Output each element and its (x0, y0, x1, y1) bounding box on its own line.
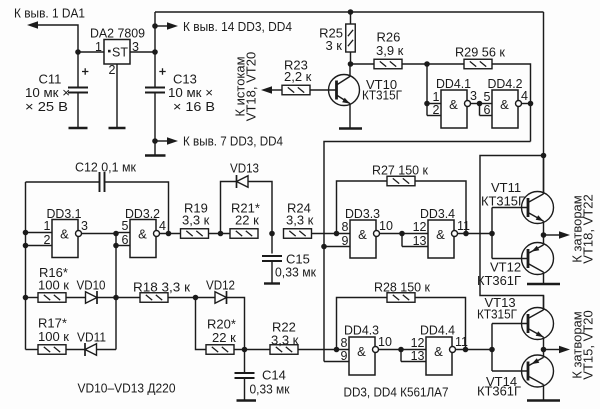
svg-text:К выв. 7 DD3, DD4: К выв. 7 DD3, DD4 (183, 134, 283, 149)
resistor R29 (464, 59, 492, 69)
svg-text:VT18, VT20: VT18, VT20 (244, 52, 259, 121)
gate DD3.4 output inversion bubble (452, 231, 458, 237)
node R27 right / DD3.4 out (463, 231, 469, 237)
node R20/R22/C14/VD12 (242, 347, 248, 353)
svg-text:3: 3 (81, 219, 88, 233)
wire DD3.3 out (380, 233, 403, 235)
svg-text:R18 3,3 к: R18 3,3 к (133, 280, 190, 295)
node DD4.2 input jog (477, 101, 483, 107)
wire VT13 collector (543, 296, 545, 311)
wire VT10 emitter down (349, 104, 351, 128)
wire node to R26 (351, 63, 375, 65)
node DD3.3 pin 9 (321, 244, 327, 250)
wire node A down to DD4.1 inputs (426, 64, 428, 116)
wire R28 right (415, 298, 466, 350)
gate DD3.1 output inversion bubble (76, 231, 82, 237)
svg-text:С12 0,1 мк: С12 0,1 мк (75, 160, 136, 175)
logic gate DD4.1 box (441, 90, 467, 128)
svg-text:DD4.1: DD4.1 (436, 76, 471, 91)
common bar under VT12 (527, 283, 560, 285)
svg-text:КТ315Г: КТ315Г (362, 88, 402, 103)
svg-text:0,33 мк: 0,33 мк (275, 265, 316, 280)
wire C12 left (26, 181, 100, 183)
svg-text:R28 150 к: R28 150 к (374, 280, 430, 295)
wire DD3.2 pin 5 (116, 232, 130, 234)
svg-text:100 к: 100 к (38, 278, 69, 293)
svg-text:3,3 к: 3,3 к (182, 213, 210, 228)
common bar under C11 (69, 127, 88, 129)
wire DD3.1 pin 1 (26, 232, 53, 234)
wire VT12 collector (543, 272, 545, 283)
capacitor C13 plates (145, 88, 165, 93)
left inputs vertical (25, 182, 27, 350)
svg-text:VD11: VD11 (77, 330, 106, 345)
node R28 right / DD4.4 out (463, 347, 469, 353)
node VD10/VD11 join (113, 295, 119, 301)
node C11/DA2 junction (75, 49, 81, 55)
wire C15 top (271, 234, 273, 254)
svg-text:13: 13 (413, 234, 427, 248)
wire R16 left (26, 297, 39, 299)
node emitters VT13 VT14 (541, 347, 547, 353)
svg-text:22 к: 22 к (212, 330, 236, 345)
node DD3.1 pin2 (23, 243, 29, 249)
wire DD4.1 out to jog (471, 103, 480, 105)
node 14-tap (152, 23, 158, 29)
wire DD3.4 pin 12 (402, 233, 428, 235)
logic gate DD3.3 box (350, 220, 376, 258)
svg-text:К выв. 14 DD3, DD4: К выв. 14 DD3, DD4 (183, 19, 292, 34)
svg-text:22 к: 22 к (235, 213, 259, 228)
wire VT14 collector (543, 385, 545, 400)
node R18/VD12/R20 (193, 295, 199, 301)
node R16 left (23, 295, 29, 301)
wire +9V to VT13 collector frame (480, 156, 544, 310)
svg-text:КТ315Г: КТ315Г (481, 194, 525, 209)
svg-text:VT15, VT20: VT15, VT20 (581, 310, 596, 379)
wire to arrow 7 (155, 140, 168, 142)
resistor R26 (374, 59, 402, 69)
gate DD4.4 output inversion bubble (450, 347, 456, 353)
node R25/R26/VT10 collector (348, 61, 354, 67)
svg-text:&: & (500, 97, 509, 112)
common bar under VT14 (527, 399, 560, 401)
wire DD3.3 pin 9 (324, 246, 350, 248)
wire DD4.1 pin 1 (427, 103, 441, 105)
transistor VT14 (PNP) (522, 355, 554, 387)
svg-text:&: & (436, 227, 445, 242)
voltage regulator DA2 box (104, 40, 130, 65)
svg-text:КТ315Г: КТ315Г (477, 307, 517, 322)
capacitor C14 plates (235, 373, 255, 378)
svg-text:1: 1 (433, 90, 440, 104)
svg-text:12: 12 (411, 336, 425, 350)
svg-text:8: 8 (342, 220, 349, 234)
resistor R27 (387, 176, 415, 186)
transistor VT13 (NPN) (522, 308, 554, 340)
wire R29 right down to pin4 node (492, 64, 531, 142)
svg-text:2: 2 (44, 233, 51, 247)
wire R22 to DD4.3 (298, 349, 349, 351)
node 7-tap (152, 138, 158, 144)
logic gate DD3.4 box (428, 220, 454, 258)
wire DD3.1 out (82, 233, 117, 235)
C13 plus mark (159, 68, 165, 74)
svg-text:9: 9 (342, 234, 349, 248)
svg-text:6: 6 (484, 103, 491, 117)
svg-text:10: 10 (379, 219, 393, 233)
diode VD11 (85, 344, 97, 356)
wire DD4.3 out (379, 349, 402, 351)
wire R25 to collector node (350, 52, 352, 64)
svg-text:VD13: VD13 (230, 161, 259, 176)
transistor VT12 (PNP) (522, 243, 554, 275)
common bar under C14 (237, 399, 257, 401)
logic gate DD4.2 box (492, 90, 518, 128)
svg-text:ST: ST (112, 46, 128, 60)
resistor R24 (284, 229, 312, 239)
node R27 left / DD3.3 pin 8 (334, 231, 340, 237)
wire C12 right (105, 182, 169, 234)
jog DD4.2 inputs (479, 104, 481, 116)
svg-text:&: & (357, 344, 366, 359)
svg-text:R27 150 к: R27 150 к (372, 163, 428, 178)
svg-text:DD4.4: DD4.4 (420, 323, 455, 338)
svg-text:1: 1 (44, 219, 51, 233)
common bar under VT10 (339, 127, 362, 129)
node DD4.1 pin1 (424, 101, 430, 107)
wire DA2 pin 2 down (116, 64, 118, 128)
jog DD4.4 inputs (400, 350, 402, 362)
svg-text:&: & (358, 227, 367, 242)
svg-text:VD10–VD13 Д220: VD10–VD13 Д220 (78, 381, 176, 396)
wire DD3.4 out to bases (458, 233, 493, 235)
diode VD10 (86, 292, 98, 304)
C11 plus mark (82, 68, 88, 74)
gate DD3.2 output inversion bubble (154, 231, 160, 237)
svg-text:3: 3 (470, 89, 477, 103)
arrow to pin 1 DA1 (27, 21, 38, 29)
wire R19 to VD13 node (209, 233, 231, 235)
gate DD4.3 output inversion bubble (373, 347, 379, 353)
wire C14 top (244, 350, 246, 374)
svg-text:5: 5 (122, 219, 129, 233)
node DD3.2 pin 6 tap (113, 243, 119, 249)
diode VD13 (237, 176, 249, 188)
logic gate DD4.3 box (349, 337, 375, 375)
svg-text:9: 9 (341, 349, 348, 363)
wire R17 to VD11 (66, 349, 85, 351)
common bar under C15 (264, 282, 280, 284)
node VT11/VT12 bases (489, 231, 495, 237)
wire R28 left (337, 298, 388, 350)
wire to arrow 14 (155, 25, 168, 27)
base frame VT13 VT14 (492, 324, 528, 372)
wire VD10 to node (97, 297, 140, 299)
resistor R21 (230, 229, 258, 239)
svg-text:1: 1 (95, 40, 102, 54)
svg-text:С14: С14 (262, 368, 286, 383)
wire C14 bottom (244, 378, 246, 400)
wire from DA1 arrow to node (38, 25, 78, 52)
capacitor C15 plates (262, 256, 282, 261)
svg-text:&: & (60, 227, 69, 242)
svg-text:5: 5 (484, 90, 491, 104)
wire C11 to common (77, 93, 79, 128)
svg-text:DD3.3: DD3.3 (345, 206, 380, 221)
right +9V drop (543, 12, 545, 194)
wire DD3.2 pin 6 (116, 245, 130, 247)
wire rail to R25 (350, 12, 352, 24)
resistor R19 (181, 229, 209, 239)
arrow to gates VT15 VT20 (559, 346, 570, 354)
wire R24 to DD3.3 (312, 233, 351, 235)
capacitor C12 (100, 172, 105, 192)
svg-text:4: 4 (521, 89, 528, 103)
resistor R28 (387, 293, 415, 303)
node VD13 left (218, 231, 224, 237)
wire C13 down (154, 93, 156, 156)
wire C15 bottom (271, 261, 273, 283)
wire DD4.1 pin 2 (427, 115, 441, 117)
resistor R18 (140, 293, 168, 303)
wire VT14 emitter (543, 350, 545, 358)
svg-text:DD4.3: DD4.3 (344, 323, 379, 338)
svg-text:10 мк ×: 10 мк × (168, 85, 213, 100)
wire R20 to node (234, 349, 270, 351)
svg-text:VT18, VT22: VT18, VT22 (581, 194, 596, 263)
node A (R26/R29/DD4.1 input) (424, 61, 430, 67)
arrow to pin 14 DD3 DD4 (167, 22, 178, 30)
node VT13/VT14 bases (489, 347, 495, 353)
svg-text:11: 11 (455, 335, 468, 349)
svg-text:12: 12 (413, 220, 427, 234)
svg-text:3 к: 3 к (325, 38, 342, 53)
node R28 left / DD4.3 pin 8 (334, 347, 340, 353)
svg-text:2: 2 (433, 103, 440, 117)
svg-text:&: & (138, 227, 147, 242)
logic gate DD4.4 box (426, 337, 452, 375)
wire R27 right (415, 181, 466, 234)
svg-text:VD10: VD10 (77, 278, 106, 293)
svg-text:6: 6 (122, 233, 129, 247)
svg-text:2,2 к: 2,2 к (284, 69, 312, 84)
wire DD4.2 out (522, 103, 531, 105)
wire VT13 emitter (543, 337, 545, 349)
wire output to arrow (544, 234, 560, 236)
svg-text:VD12: VD12 (206, 278, 235, 293)
transistor VT11 (NPN) (522, 192, 554, 224)
wire VT11 emitter (543, 221, 545, 235)
top +9V rail (155, 11, 544, 13)
svg-text:3,9 к: 3,9 к (376, 43, 404, 58)
svg-text:11: 11 (457, 219, 470, 233)
wire DD4.2 pin 6 (480, 115, 493, 117)
svg-text:3,3 к: 3,3 к (271, 333, 299, 348)
common bar under DA2 pin 2 (109, 127, 126, 129)
diode VD12 (215, 292, 227, 304)
node DA2 pin3/C13 (152, 49, 158, 55)
resistor R22 (270, 345, 298, 355)
resistor R20 (206, 345, 234, 355)
svg-text:13: 13 (411, 349, 425, 363)
node DD4.4 input jog (398, 347, 404, 353)
resistor R25 (346, 24, 356, 52)
gate DD4.2 output inversion bubble (516, 101, 522, 107)
wire node down to R20 (196, 298, 207, 350)
svg-text:100 к: 100 к (38, 329, 69, 344)
svg-text:DD3, DD4 К561ЛА7: DD3, DD4 К561ЛА7 (344, 385, 449, 400)
svg-text:× 16 В: × 16 В (173, 99, 215, 114)
gate DD4.1 output inversion bubble (465, 101, 471, 107)
wire R23 to arrow (272, 89, 282, 91)
svg-text:КТ361Г: КТ361Г (477, 273, 521, 288)
wire R17 left (26, 349, 39, 351)
wire +9V vertical (154, 12, 156, 88)
node DD3.1 pin1 (23, 230, 29, 236)
resistor R16 (38, 293, 66, 303)
wire DD3.1 pin 2 (26, 245, 53, 247)
wire DD3.4 pin 13 (402, 246, 428, 248)
arrow to gates VT18 VT22 (559, 231, 570, 239)
logic gate DD3.2 box (130, 220, 156, 258)
arrow to pin 7 DD3 DD4 (167, 137, 178, 145)
wire DD3.2 out (160, 233, 181, 235)
wire VD13 right branch (248, 182, 272, 234)
svg-text:10: 10 (378, 335, 392, 349)
svg-text:3,3 к: 3,3 к (286, 213, 314, 228)
svg-text:К выв. 1 DA1: К выв. 1 DA1 (14, 6, 85, 21)
svg-text:DD4.2: DD4.2 (488, 76, 523, 91)
svg-text:8: 8 (341, 336, 348, 350)
svg-text:КТ361Г: КТ361Г (477, 384, 521, 399)
rail DD4.2 output to left (324, 142, 531, 362)
wire R26 to node A (402, 63, 464, 65)
jog DD3.2 inputs down to diode network (115, 234, 117, 350)
gate DD3.3 output inversion bubble (374, 231, 380, 237)
transistor VT10 (NPN) (329, 75, 360, 106)
wire DD4.4 out to bases (456, 349, 493, 351)
wire R16 to VD10 (66, 297, 86, 299)
node C12/DD3.2 out (166, 231, 172, 237)
wire VD12 down corner (227, 298, 245, 350)
node emitters VT11 VT12 (541, 232, 547, 238)
wire output2 to arrow (544, 349, 560, 351)
svg-text:0,33 мк: 0,33 мк (250, 382, 290, 397)
wire node down to C11 (77, 52, 79, 88)
wire VT10 collector up (349, 64, 351, 77)
svg-text:R29 56 к: R29 56 к (455, 45, 505, 60)
svg-text:× 25 В: × 25 В (25, 99, 68, 114)
arrow to sources VT18 VT20 (261, 86, 272, 94)
wire VT11 collector (543, 156, 545, 195)
svg-text:4: 4 (159, 219, 166, 233)
wire VD13 left branch (221, 182, 237, 234)
node DD3.4 input jog (399, 231, 405, 237)
node +9V / VT13 feed (541, 153, 547, 159)
svg-text:2: 2 (109, 63, 116, 77)
logic gate DD3.1 box (52, 220, 78, 258)
common bar under C13 (145, 154, 166, 156)
svg-text:&: & (449, 97, 458, 112)
wire node to DA2 pin 1 (78, 51, 104, 53)
node R21/R24/C15 (269, 231, 275, 237)
svg-text:DD3.4: DD3.4 (420, 206, 455, 221)
resistor R17 (38, 345, 66, 355)
svg-text:&: & (434, 344, 443, 359)
wire VD11 to riser (97, 349, 117, 351)
node rail/R25 (348, 9, 354, 15)
svg-text:DA2 7809: DA2 7809 (90, 26, 145, 41)
jog DD3.4 inputs (401, 234, 403, 247)
wire VT12 emitter (543, 235, 545, 245)
wire R23 to VT10 base (310, 89, 337, 91)
wire R27 left (337, 181, 388, 234)
wire DA2 pin 3 to node (130, 51, 155, 53)
node DD4.2 pin 4 output (528, 101, 534, 107)
capacitor C11 plates (68, 88, 88, 93)
svg-text:10 мк ×: 10 мк × (25, 85, 70, 100)
wire DD4.3 pin 9 (324, 361, 349, 363)
wire DD4.2 pin 5 (480, 103, 493, 105)
node DD3.2 input jog (113, 231, 119, 237)
wire DD4.4 pin 12 (401, 349, 426, 351)
resistor R23 (282, 85, 310, 95)
wire R18 to VD12 (168, 297, 215, 299)
wire DD4.4 pin 13 (401, 361, 426, 363)
base frame VT11 VT12 (492, 208, 528, 259)
